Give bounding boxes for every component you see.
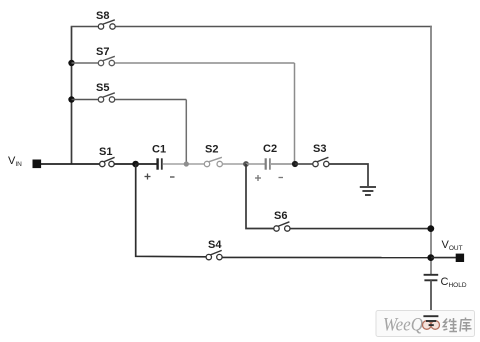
junction dot node C (C2 / S7 drop / S3) [292, 161, 298, 167]
input terminal square VIN [33, 160, 42, 169]
wire node A down and across to S4 [136, 164, 206, 257]
svg-text:S1: S1 [99, 146, 112, 158]
wire S8 row: corner stub to S8 and S8 to right rail [71, 26, 432, 28]
svg-text:C1: C1 [152, 144, 166, 156]
watermark CJK text (drawn strokes) [443, 318, 471, 332]
capacitor CHOLD [424, 275, 439, 281]
wire node B to C2 [246, 163, 265, 165]
wire C2 to node C [271, 163, 296, 165]
wire S4 to right rail [222, 256, 431, 258]
wire node A to C1 [136, 163, 157, 165]
svg-text:S8: S8 [96, 10, 109, 22]
wire node C to S3 [295, 163, 313, 165]
junction dot left rail / S5 [68, 96, 74, 102]
watermark logo circles [423, 321, 440, 330]
switch S5 [98, 93, 115, 102]
ground symbol at S3 [360, 187, 376, 195]
watermark box [376, 311, 475, 337]
ground symbol at CHOLD [423, 316, 438, 325]
svg-text:WeeQ: WeeQ [383, 316, 424, 336]
svg-text:S6: S6 [274, 210, 287, 222]
junction dot left rail / S7 [68, 60, 74, 66]
junction dot S6 / right rail [427, 225, 434, 232]
switch S1 [100, 157, 115, 166]
junction dot node A (S1 / C1 / S4 branch) [132, 161, 139, 168]
svg-text:S2: S2 [205, 144, 218, 156]
switch S4 [206, 250, 222, 259]
polarity marks C1 [145, 174, 175, 180]
wire VIN to S1 [41, 163, 100, 165]
switch S8 [98, 20, 115, 29]
capacitor C1 [158, 158, 162, 169]
svg-text:S7: S7 [96, 46, 109, 58]
switch S3 [313, 157, 329, 166]
wire S5 row: rail to S5, S5 to drop, drop down to C1-S2 node [72, 100, 187, 164]
switch S6 [274, 222, 290, 231]
junction dot VOUT node [427, 254, 434, 261]
wire VOUT node to output terminal [431, 257, 456, 259]
svg-text:S4: S4 [208, 239, 222, 251]
junction dot node B (S2 / C2 / S6 branch) [243, 161, 249, 167]
svg-text:S5: S5 [96, 82, 109, 94]
wire S6 to right rail [290, 228, 431, 230]
wire C1 to S2 (with S5 drop node) [163, 163, 205, 165]
switch S2 [204, 157, 222, 166]
svg-text:S3: S3 [313, 143, 326, 155]
junction dot C1/S5 node [184, 161, 189, 166]
wire S1 to node A [114, 163, 137, 165]
wire S2 to node B [222, 163, 246, 165]
output terminal square VOUT [456, 254, 464, 262]
switch S7 [98, 56, 115, 65]
wire S7 row: rail to S7, S7 to drop, drop down to C2 right node [72, 63, 295, 163]
wire left rail from S8 corner down to input line [71, 27, 73, 165]
wire node B down and across to S6 [246, 164, 274, 229]
svg-text:C2: C2 [263, 143, 277, 155]
capacitor C2 [266, 158, 270, 169]
wire S3 to ground stem [329, 164, 368, 186]
wire right rail from S8 line down to CHOLD top plate [430, 26, 432, 274]
wire CHOLD to ground [430, 280, 432, 316]
polarity marks C2 [255, 175, 283, 181]
